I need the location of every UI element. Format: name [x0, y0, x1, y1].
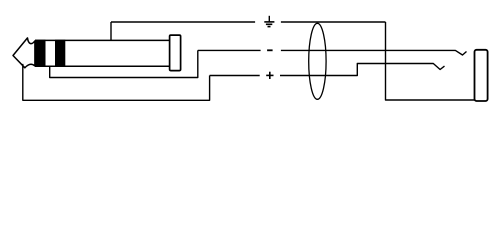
- wire: sleeve riser: [110, 22, 112, 40]
- plug J1 ring contact: [46, 40, 56, 66]
- ground symbol: [264, 16, 274, 27]
- plug J1 sleeve barrel: [35, 40, 170, 66]
- plug J1 rear flange: [170, 35, 181, 71]
- wire: tip mid run: [210, 75, 260, 77]
- cable cross-section ellipse: [309, 23, 326, 99]
- wire: shield drop: [386, 22, 475, 100]
- plug J1 insulator band 1: [35, 40, 46, 67]
- plug J1 tip contact: [13, 38, 35, 68]
- minus label: [267, 49, 273, 51]
- wire: ring mid run: [198, 49, 261, 51]
- wire: ring run to hook: [281, 50, 467, 55]
- wire: shield run to right: [281, 21, 386, 23]
- plug J1 insulator band 2: [55, 40, 65, 67]
- wire: ring drop under plug: [50, 50, 198, 77]
- wire: sleeve/shield top run: [111, 21, 255, 23]
- terminal plate: [475, 50, 488, 101]
- wire: tip drop from plug tip: [23, 64, 210, 100]
- wire: tip run with jog to hook: [280, 64, 445, 76]
- plus label: [266, 72, 273, 79]
